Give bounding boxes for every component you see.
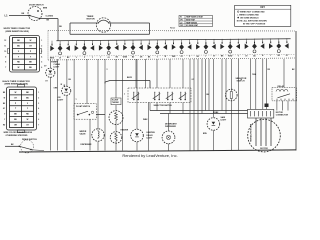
svg-text:9: 9: [5, 56, 6, 58]
svg-text:2: 2: [41, 45, 42, 47]
svg-text:W/BK: W/BK: [143, 119, 148, 121]
svg-text:⊥ WIRES CONNECTED: ⊥ WIRES CONNECTED: [237, 14, 260, 17]
svg-text:IN THE 'OFF' POSITION: IN THE 'OFF' POSITION: [243, 23, 266, 25]
svg-text:RD/BK: RD/BK: [213, 112, 219, 114]
svg-text:2: 2: [38, 97, 39, 99]
svg-text:T: T: [100, 57, 101, 59]
svg-text:HI-LIMIT: HI-LIMIT: [112, 100, 118, 102]
svg-text:4: 4: [41, 55, 42, 58]
svg-text:LIGHT: LIGHT: [58, 100, 65, 102]
svg-text:OTHERWISE SPECIFIED: OTHERWISE SPECIFIED: [6, 135, 29, 137]
svg-text:(WIRE INSERTION SIDE): (WIRE INSERTION SIDE): [6, 31, 30, 33]
svg-text:CLOSED: CLOSED: [46, 16, 54, 18]
svg-text:BK/W: BK/W: [50, 57, 55, 59]
svg-text:5: 5: [38, 114, 39, 116]
svg-text:DOOR SWITCH: DOOR SWITCH: [29, 4, 44, 6]
svg-text:DISPENSER: DISPENSER: [81, 144, 93, 146]
svg-text:W: W: [18, 67, 20, 69]
svg-text:T: T: [205, 56, 206, 58]
svg-text:ON SOME MODELS: ON SOME MODELS: [240, 18, 259, 20]
svg-text:NO SANI HEAT: NO SANI HEAT: [186, 24, 199, 27]
svg-text:8: 8: [5, 62, 6, 64]
svg-text:HEATING: HEATING: [147, 131, 156, 134]
svg-text:FLOAT SWITCH: FLOAT SWITCH: [76, 105, 91, 108]
svg-text:11: 11: [4, 45, 6, 47]
svg-text:5: 5: [41, 62, 42, 64]
svg-text:W: W: [15, 92, 17, 94]
svg-text:MOTOR: MOTOR: [87, 19, 96, 21]
svg-text:KEY: KEY: [260, 7, 265, 9]
svg-text:HEATER: HEATER: [121, 129, 129, 132]
svg-text:TEMP SENSE: TEMP SENSE: [186, 22, 198, 24]
svg-text:W: W: [27, 119, 29, 121]
svg-text:VALVE: VALVE: [80, 132, 87, 135]
svg-text:LIGHT: LIGHT: [221, 120, 228, 122]
svg-text:SELECTOR SWITCH: SELECTOR SWITCH: [154, 105, 173, 107]
svg-text:Rendered by LeadVenture, Inc.: Rendered by LeadVenture, Inc.: [122, 153, 177, 158]
svg-text:OFF: OFF: [180, 25, 183, 27]
svg-text:LIGHT: LIGHT: [54, 66, 61, 68]
svg-text:RD/W: RD/W: [228, 56, 233, 58]
svg-text:BLACK TIMER CONNECTOR: BLACK TIMER CONNECTOR: [3, 80, 31, 83]
svg-text:THERMO: THERMO: [112, 102, 120, 104]
svg-text:DISPENSER: DISPENSER: [165, 126, 177, 128]
svg-text:LIGHT: LIGHT: [147, 137, 154, 139]
svg-text:NOTE: ALL SWITCHES SHOWN: NOTE: ALL SWITCHES SHOWN: [237, 20, 267, 23]
svg-text:6: 6: [38, 119, 39, 121]
svg-text:BRN: BRN: [43, 8, 48, 10]
svg-text:MOTOR: MOTOR: [260, 148, 268, 150]
svg-text:W: W: [30, 40, 32, 42]
svg-text:SANI HEAT: SANI HEAT: [186, 18, 196, 21]
svg-text:1: 1: [41, 40, 42, 42]
svg-text:6: 6: [41, 67, 42, 69]
svg-text:WIRES NOT CONNECTED: WIRES NOT CONNECTED: [240, 12, 265, 14]
svg-text:7: 7: [5, 67, 6, 69]
svg-text:BK/W: BK/W: [127, 77, 132, 79]
svg-text:TEMP WASH & HEAT: TEMP WASH & HEAT: [186, 16, 204, 19]
svg-text:12: 12: [4, 40, 6, 42]
svg-text:7: 7: [38, 124, 39, 126]
svg-text:10: 10: [4, 51, 6, 53]
svg-text:CONNECTOR: CONNECTOR: [276, 114, 289, 116]
svg-text:SWITCH: SWITCH: [237, 81, 245, 83]
svg-text:1: 1: [38, 92, 39, 94]
svg-text:3: 3: [38, 103, 39, 105]
svg-text:DELAY: DELAY: [147, 134, 154, 137]
svg-text:Timer: Timer: [170, 28, 175, 30]
